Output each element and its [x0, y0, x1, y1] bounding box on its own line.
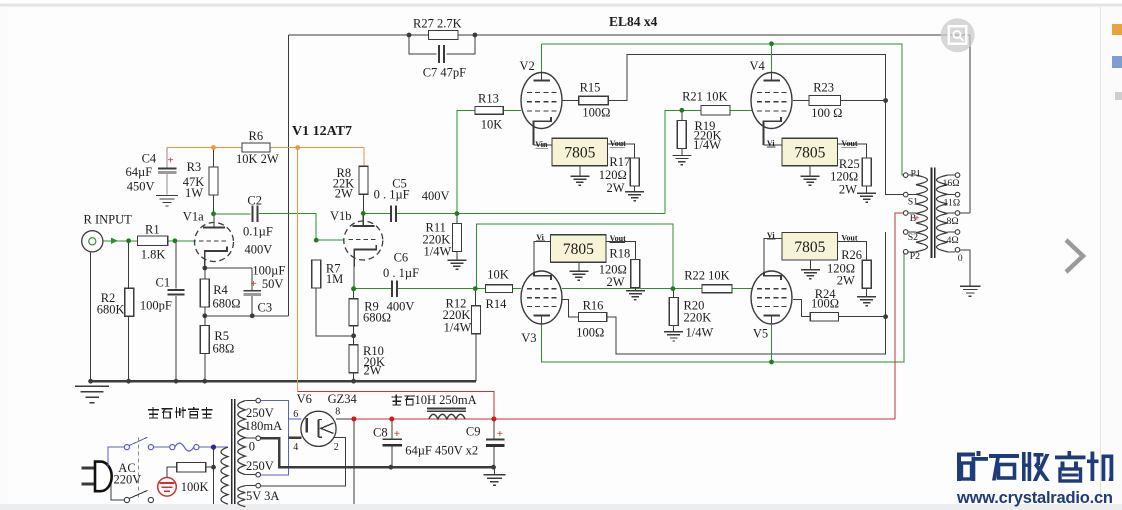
svg-text:1/4W: 1/4W — [693, 138, 721, 152]
svg-text:100Ω: 100Ω — [811, 297, 839, 311]
svg-text:6: 6 — [293, 409, 298, 420]
svg-text:120Ω: 120Ω — [830, 170, 858, 184]
svg-text:0: 0 — [249, 440, 255, 454]
svg-text:64µF: 64µF — [126, 165, 153, 179]
wire: B+ rail from GZ34 cathode through choke to output transformer B+ — [336, 418, 895, 420]
svg-text:R27 2.7K: R27 2.7K — [413, 17, 462, 31]
svg-text:1.8K: 1.8K — [141, 248, 166, 262]
wire: V3 screen to R16 — [562, 300, 579, 317]
junction — [202, 379, 207, 384]
pentode V4 — [751, 73, 792, 129]
wire: R3 leads — [213, 148, 215, 168]
wire: B+ distribution (orange) from C4/R6 node — [167, 147, 364, 149]
regulator U1 7805 — [552, 138, 608, 166]
wire: R8 bottom lead — [363, 194, 365, 213]
resistor R8 22K 2W — [359, 166, 368, 194]
svg-text:4: 4 — [293, 442, 298, 453]
wire: V1b cathode lead — [353, 260, 355, 289]
ground under U2 — [569, 270, 588, 272]
svg-text:V2: V2 — [520, 59, 535, 73]
svg-text:R26: R26 — [841, 248, 862, 262]
svg-text:7805: 7805 — [794, 145, 825, 162]
wire: V3 cathode to U2 Vi — [534, 242, 551, 273]
svg-text:450V: 450V — [127, 180, 155, 194]
svg-text:C1: C1 — [156, 275, 171, 289]
resistor R21 10K — [701, 106, 730, 116]
capacitor C8 64uF 450V — [382, 438, 401, 440]
resistor R6 10K 2W — [242, 143, 270, 152]
svg-text:680Ω: 680Ω — [363, 310, 391, 324]
svg-text:2W: 2W — [607, 181, 625, 195]
wire: HT secondary to rectifier plates (blue) — [260, 401, 288, 475]
svg-text:+: + — [168, 155, 174, 167]
svg-text:1/4W: 1/4W — [424, 245, 452, 259]
ground under U3 — [801, 175, 820, 177]
resistor R14 10K — [486, 285, 513, 293]
svg-text:R4: R4 — [213, 283, 228, 297]
svg-text:V1a: V1a — [183, 209, 204, 223]
node S1 — [903, 192, 908, 197]
svg-text:8Ω: 8Ω — [947, 216, 959, 227]
resistor R9 680ohm — [349, 299, 358, 326]
svg-text:1/4W: 1/4W — [686, 326, 714, 340]
resistor R27 2.7K — [429, 31, 458, 40]
wire: 0V center tap to ground rail (thick) — [260, 438, 494, 467]
resistor R5 68ohm — [200, 326, 209, 354]
junction — [173, 238, 178, 243]
junction — [351, 286, 356, 291]
svg-text:C2: C2 — [247, 193, 262, 207]
wire: R13 to V2 grid — [503, 109, 521, 111]
junction — [769, 41, 774, 46]
svg-text:7805: 7805 — [563, 241, 594, 258]
svg-text:V3: V3 — [521, 331, 536, 345]
svg-text:1W: 1W — [185, 186, 203, 200]
resistor R25 120ohm 2W — [862, 158, 871, 186]
svg-text:100pF: 100pF — [140, 299, 172, 313]
svg-text:Vin: Vin — [535, 140, 548, 149]
resistor R18 120ohm 2W — [631, 259, 640, 287]
svg-text:11Ω: 11Ω — [944, 198, 961, 209]
svg-text:R INPUT: R INPUT — [84, 212, 133, 226]
junction — [389, 417, 394, 422]
junction — [491, 465, 496, 470]
svg-text:100 Ω: 100 Ω — [811, 106, 842, 120]
svg-text:180mA: 180mA — [245, 419, 283, 433]
node S2 — [903, 230, 908, 235]
svg-text:R16: R16 — [583, 298, 604, 312]
svg-text:220V: 220V — [114, 473, 142, 487]
ground under R17 — [625, 191, 644, 193]
fuse F1 — [170, 445, 175, 450]
wire: V5 cathode to U4 Vi — [764, 238, 782, 272]
svg-text:C8: C8 — [373, 426, 388, 440]
wire: pin2 to 5V winding — [260, 438, 345, 486]
junction — [88, 379, 93, 384]
resistor 100K bleeder — [177, 462, 206, 472]
junction — [351, 287, 356, 292]
junction — [351, 417, 356, 422]
power transformer 5V winding — [238, 486, 246, 507]
triode V1a — [195, 223, 234, 262]
ground at input bus left — [75, 385, 109, 387]
capacitor C9 64uF 450V — [486, 438, 504, 440]
ground under R26 — [857, 296, 876, 298]
capacitor C5 0.1uF 400V — [390, 205, 392, 222]
svg-text:5V 3A: 5V 3A — [246, 489, 279, 503]
junction — [211, 211, 216, 216]
junction — [769, 360, 774, 365]
ground under R19 — [672, 155, 691, 157]
wire: R27/C7 parallel combo links — [409, 34, 429, 36]
svg-text:R6: R6 — [249, 129, 264, 143]
svg-text:250V: 250V — [246, 406, 274, 420]
wire: U3 Vout to R25 — [838, 144, 867, 158]
svg-text:2W: 2W — [364, 363, 382, 377]
output transformer primary winding — [916, 175, 928, 252]
svg-text:0: 0 — [958, 253, 963, 264]
svg-text:Vout: Vout — [610, 139, 626, 148]
wire: V1a plate node to C2 to V1b grid — [214, 213, 251, 215]
svg-text:2W: 2W — [839, 183, 857, 197]
node 16 ohm tap — [955, 173, 960, 178]
wire: S2 to R16/R24 — [607, 232, 886, 354]
wire: R15 left lead — [562, 100, 579, 102]
svg-text:10H 250mA: 10H 250mA — [415, 393, 477, 407]
switch link dashed — [137, 438, 139, 501]
svg-text:B: B — [910, 213, 917, 224]
junction — [211, 465, 216, 470]
svg-text:10K: 10K — [487, 267, 509, 281]
chassis ground under C9 — [483, 474, 505, 476]
svg-text:EL84 x4: EL84 x4 — [609, 14, 658, 29]
svg-text:10K: 10K — [481, 118, 503, 132]
svg-text:R15: R15 — [580, 81, 601, 95]
wire: R21 to V4 grid — [730, 109, 753, 111]
resistor R13 10K — [475, 107, 503, 115]
svg-text:+: + — [497, 428, 503, 440]
wire: pin8 to lower 5V terminal — [353, 419, 355, 504]
svg-text:V4: V4 — [750, 59, 766, 73]
svg-text:R1: R1 — [145, 222, 160, 236]
junction — [174, 379, 179, 384]
svg-text:+: + — [394, 428, 400, 440]
junction — [671, 286, 676, 291]
resistor R12 220K 1/4W — [472, 306, 481, 334]
svg-text:R21 10K: R21 10K — [682, 90, 728, 104]
svg-text:R3: R3 — [187, 160, 202, 174]
chassis earth symbol (red) — [158, 478, 177, 497]
wire: ground rail drop to chassis ground — [493, 467, 495, 474]
ground under R11 — [447, 259, 466, 261]
rectifier V6 GZ34 — [301, 411, 336, 446]
svg-text:+: + — [251, 278, 257, 290]
junction — [455, 211, 460, 216]
junction — [202, 266, 207, 271]
wire: R9 leads — [353, 289, 355, 299]
svg-text:8: 8 — [335, 407, 340, 418]
resistor R23 100ohm — [809, 96, 840, 106]
ground under output transformer secondary — [960, 285, 981, 287]
ground bus — [91, 380, 477, 383]
node HT 250V bottom tap — [256, 472, 261, 477]
svg-text:400V: 400V — [422, 189, 450, 203]
junction — [295, 145, 300, 150]
wire: C9 leads — [493, 419, 495, 438]
node 8 ohm tap — [955, 211, 960, 216]
wire: R20 leads — [673, 289, 675, 298]
resistor R20 220K 1/4W — [669, 298, 678, 326]
svg-text:Vout: Vout — [610, 234, 626, 243]
svg-text:C7 47pF: C7 47pF — [423, 66, 466, 80]
wire: R10 leads — [353, 336, 355, 345]
svg-text:120Ω: 120Ω — [599, 168, 627, 182]
wire: V1b cathode line y=288.6 through C6, R14, R22 to V3/V5 grids — [354, 288, 392, 290]
svg-text:100K: 100K — [181, 480, 209, 494]
resistor R2 680K — [125, 288, 134, 316]
svg-text:C4: C4 — [142, 151, 157, 165]
wire: R23 to S1 line junction — [840, 100, 885, 102]
ground under U1 — [570, 175, 589, 177]
svg-text:7805: 7805 — [794, 239, 825, 256]
wire: upper loop left vertical to R13 — [457, 110, 475, 213]
resistor R24 100ohm — [810, 313, 838, 321]
wire: C1 leads — [175, 241, 177, 289]
wire: U1 Vout to R17 — [608, 144, 635, 158]
junction — [211, 145, 216, 150]
junction — [389, 465, 394, 470]
junction — [473, 33, 478, 38]
svg-text:100µF: 100µF — [252, 263, 285, 277]
junction — [679, 108, 684, 113]
switch S1b — [124, 497, 129, 502]
svg-text:S1: S1 — [908, 196, 918, 207]
wire: U2 Vout to R18 — [606, 242, 635, 260]
svg-text:2W: 2W — [607, 275, 625, 289]
svg-text:10K 2W: 10K 2W — [236, 152, 279, 166]
next-image chevron — [1066, 240, 1083, 272]
output transformer T2 core — [931, 168, 933, 259]
svg-text:100Ω: 100Ω — [582, 105, 610, 119]
junction — [314, 238, 319, 243]
wire: GZ34 pin8 stub — [336, 418, 354, 420]
svg-text:680K: 680K — [97, 303, 125, 317]
svg-text:S2: S2 — [908, 232, 918, 243]
wire: R12 top lead — [474, 289, 476, 306]
capacitor C6 0.1uF 400V — [391, 280, 393, 297]
svg-text:Vout: Vout — [841, 139, 857, 148]
wire: R11 leads — [456, 214, 458, 224]
ground under C4 — [156, 194, 178, 196]
junction — [351, 333, 356, 338]
node HT 250V top tap — [256, 398, 261, 403]
wire: plate top line to P1 — [542, 44, 904, 175]
capacitor C4 64uF 450V — [166, 148, 168, 168]
svg-text:Vout: Vout — [841, 233, 857, 242]
wire: V1a cathode node to R4/C3 — [204, 252, 206, 280]
svg-text:V1b: V1b — [330, 209, 352, 223]
svg-text:1M: 1M — [326, 272, 343, 286]
svg-text:0 . 1µF: 0 . 1µF — [374, 188, 410, 202]
svg-text:Vi: Vi — [767, 231, 775, 240]
svg-text:V6: V6 — [297, 392, 312, 406]
svg-text:V5: V5 — [753, 327, 768, 341]
svg-text:0 . 1µF: 0 . 1µF — [383, 266, 419, 280]
svg-text:2W: 2W — [335, 186, 353, 200]
svg-text:R22 10K: R22 10K — [684, 269, 730, 283]
svg-text:R18: R18 — [609, 247, 630, 261]
junction — [202, 313, 207, 318]
power transformer HT secondary winding — [238, 401, 246, 475]
power transformer T1 core — [231, 399, 233, 504]
triode V1b — [344, 221, 383, 260]
wire: B+ bypass (red) down to C9 node — [298, 392, 494, 420]
wire: V1b plate node line y=213.5 through C5 to upper grid loop — [363, 212, 391, 214]
wire: input jack to ground bus — [90, 252, 92, 381]
wire: feedback top rail from 8-ohm tap to R27 and V1a cathode network — [289, 34, 970, 36]
svg-text:16Ω: 16Ω — [943, 178, 960, 189]
svg-text:R23: R23 — [813, 81, 834, 95]
svg-text:www.crystalradio.cn: www.crystalradio.cn — [956, 489, 1113, 507]
svg-text:C9: C9 — [466, 424, 481, 438]
ground under R25 — [857, 192, 876, 194]
svg-text:2W: 2W — [837, 274, 855, 288]
wire: rectifier plate pin4 — [288, 437, 301, 439]
wire: plate supply line y=54 from R15 to S1 — [608, 54, 903, 194]
svg-text:Vi: Vi — [536, 233, 544, 242]
junction — [883, 98, 888, 103]
capacitor C7 47pF — [438, 45, 440, 63]
output transformer secondary winding — [937, 175, 948, 252]
node P1 — [903, 173, 908, 178]
wire: R2 leads — [128, 241, 130, 288]
capacitor C2 0.1uF 400V — [251, 205, 253, 222]
wire: U4 Vout to R26 — [838, 242, 867, 261]
resistor R15 100ohm — [579, 96, 609, 105]
svg-text:0.1µF: 0.1µF — [243, 225, 273, 239]
choke L1 10H 250mA — [427, 407, 466, 409]
junction — [211, 445, 216, 450]
ground under R20 — [664, 331, 683, 333]
pentode V3 — [521, 271, 562, 324]
svg-text:V1 12AT7: V1 12AT7 — [292, 124, 352, 139]
wire: input jack to R1 (signal) — [103, 240, 137, 242]
capacitor C1 100pF — [168, 289, 185, 291]
wire: R12 bottom lead — [475, 334, 477, 381]
wire: mains live through switch and fuse (blue) — [108, 447, 124, 464]
node 11 ohm tap — [955, 192, 960, 197]
resistor R7 1M — [312, 260, 321, 288]
node 0 tap — [955, 248, 960, 253]
svg-text:C6: C6 — [394, 251, 409, 265]
svg-text:68Ω: 68Ω — [213, 342, 235, 356]
regulator U2 7805 — [551, 235, 607, 263]
regulator U3 7805 — [782, 138, 838, 166]
resistor R26 120ohm 2W — [862, 260, 871, 288]
wire: R7 bottom to R9 bottom — [316, 289, 353, 336]
node P2 — [903, 250, 908, 255]
junction — [126, 379, 131, 384]
resistor R4 680ohm — [200, 279, 209, 307]
AC plug — [81, 466, 95, 469]
junction — [407, 33, 412, 38]
wire: V3/V5 plate bottom line to P2 — [541, 252, 904, 362]
power transformer primary winding — [221, 447, 228, 504]
svg-text:50V: 50V — [262, 277, 284, 291]
wire: R19 leads — [681, 110, 683, 120]
right edge page fragments — [1112, 24, 1122, 35]
ground under R18 — [626, 290, 645, 292]
junction — [473, 286, 478, 291]
svg-text:P1: P1 — [911, 168, 921, 179]
input jack R INPUT — [82, 231, 103, 252]
svg-text:680Ω: 680Ω — [213, 297, 241, 311]
wire: mains neutral — [111, 484, 124, 500]
svg-text:1/4W: 1/4W — [444, 320, 472, 334]
svg-text:250V: 250V — [246, 459, 274, 473]
resistor R19 220K 1/4W — [677, 120, 686, 148]
wire: output transformer 0 tap to ground — [960, 250, 970, 286]
svg-text:R13: R13 — [478, 92, 499, 106]
resistor R10 20K 2W — [349, 345, 358, 373]
pentode V5 — [751, 271, 792, 324]
svg-text:Vi: Vi — [767, 139, 775, 148]
resistor R17 120ohm 2W — [630, 158, 639, 186]
wire: 100K bleeder connections — [206, 466, 214, 468]
node HT 0 center tap — [256, 436, 261, 441]
junction — [126, 238, 131, 243]
resistor R1 1.8K — [138, 236, 168, 245]
svg-text:100Ω: 100Ω — [576, 326, 604, 340]
resistor R3 47K 1W — [209, 167, 218, 195]
watermark logo: crystalradio (Chinese glyphs drawn as paths) — [950, 444, 1122, 508]
junction — [491, 417, 496, 422]
svg-text:4Ω: 4Ω — [947, 235, 959, 246]
svg-text:C3: C3 — [258, 301, 273, 315]
svg-text:P2: P2 — [910, 251, 920, 262]
svg-text:400V: 400V — [245, 242, 273, 256]
label: oil-immersed power transformer (Chinese) — [152, 407, 154, 418]
junction — [361, 211, 366, 216]
wire: upper loop right vertical to R21 — [665, 110, 701, 213]
svg-text:2: 2 — [334, 442, 339, 453]
svg-text:GZ34: GZ34 — [328, 392, 358, 406]
svg-text:7805: 7805 — [564, 145, 595, 162]
wire: V2 cathode to U1 Vin — [534, 144, 553, 146]
wire: V5 screen to R24 — [793, 300, 810, 317]
svg-text:R17: R17 — [609, 155, 630, 169]
pentode V2 — [521, 73, 562, 129]
node 4 ohm tap — [955, 230, 960, 235]
wire: R24 right lead — [839, 316, 886, 318]
resistor R22 10K — [702, 285, 732, 293]
switch S1a — [124, 445, 129, 450]
label: oil-immersed choke (Chinese) — [395, 395, 397, 406]
capacitor C3 100uF 50V — [243, 290, 261, 292]
svg-text:220K: 220K — [684, 311, 712, 325]
junction — [351, 379, 356, 384]
junction — [250, 313, 255, 318]
ground under U4 — [801, 269, 820, 271]
magnifier overlay icon — [941, 18, 975, 52]
wire: lower grid loop rectangle — [477, 224, 673, 289]
resistor R16 100ohm — [579, 312, 607, 321]
svg-text:R14: R14 — [486, 297, 508, 311]
wire: V4 cathode to U3 Vin — [764, 144, 783, 146]
resistor R11 220K 1/4W — [452, 224, 461, 252]
junction — [883, 314, 888, 319]
node B+ — [903, 211, 908, 216]
